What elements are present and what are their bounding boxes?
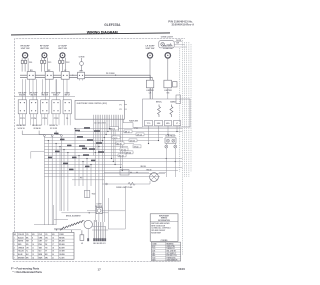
svg-text:OR-BU YL: OR-BU YL xyxy=(49,125,59,127)
svg-text:22 24 26: 22 24 26 xyxy=(34,127,41,130)
svg-text:BLUE: BLUE xyxy=(18,254,22,256)
svg-text:DBL LINE BK: DBL LINE BK xyxy=(166,251,176,253)
svg-text:IND LT: IND LT xyxy=(64,95,71,97)
svg-text:GN 18: GN 18 xyxy=(130,140,135,142)
svg-text:BR 12: BR 12 xyxy=(125,131,130,133)
svg-text:BAKE: BAKE xyxy=(170,101,176,104)
svg-text:0100: 0100 xyxy=(178,267,185,271)
svg-text:WH-BK: WH-BK xyxy=(59,237,65,239)
svg-text:F22: F22 xyxy=(66,62,69,64)
svg-text:UNIT SW: UNIT SW xyxy=(146,48,155,50)
svg-text:BROIL ELEMENT: BROIL ELEMENT xyxy=(66,215,82,217)
svg-text:7: 7 xyxy=(14,257,15,259)
svg-text:HSL: HSL xyxy=(152,253,155,255)
svg-text:316048419 Rev A: 316048419 Rev A xyxy=(172,23,195,27)
svg-text:OR-WH: OR-WH xyxy=(59,254,65,256)
svg-text:DLB RELAY: DLB RELAY xyxy=(165,134,176,137)
svg-text:IND SW: IND SW xyxy=(19,95,26,97)
svg-text:MDL: MDL xyxy=(166,123,170,125)
svg-text:15: 15 xyxy=(52,237,54,239)
svg-text:16: 16 xyxy=(52,241,54,243)
svg-text:1: 1 xyxy=(14,237,15,239)
svg-text:BK-WH GY: BK-WH GY xyxy=(32,125,42,127)
svg-text:WH 36: WH 36 xyxy=(141,166,146,168)
svg-text:YELLW: YELLW xyxy=(18,251,24,253)
svg-text:GY-WH: GY-WH xyxy=(59,251,65,253)
svg-text:12: 12 xyxy=(32,251,34,253)
svg-text:OR 14: OR 14 xyxy=(137,133,142,136)
svg-text:F20: F20 xyxy=(29,62,32,64)
svg-text:ORNGE: ORNGE xyxy=(18,247,24,249)
svg-text:* = Non-Illustrated Parts: * = Non-Illustrated Parts xyxy=(13,270,43,274)
svg-text:3: 3 xyxy=(14,244,15,246)
svg-text:11: 11 xyxy=(32,247,34,249)
svg-text:P8 CONN: P8 CONN xyxy=(106,73,115,75)
svg-text:14 16 18: 14 16 18 xyxy=(18,127,25,130)
svg-text:OVEN CTRL: OVEN CTRL xyxy=(166,246,175,248)
svg-text:RD-WH: RD-WH xyxy=(59,244,65,246)
svg-text:CODE: CODE xyxy=(152,244,156,246)
svg-text:OVEN LIGHT FUSE: OVEN LIGHT FUSE xyxy=(116,187,133,189)
svg-text:P2: P2 xyxy=(120,109,122,111)
svg-text:CODES: CODES xyxy=(161,240,168,242)
svg-text:9: 9 xyxy=(32,241,33,243)
svg-text:WH-BK RD: WH-BK RD xyxy=(16,125,26,127)
svg-text:YL-WH: YL-WH xyxy=(59,257,65,259)
svg-text:ELECTRONIC OVEN CONTROL (EOC): ELECTRONIC OVEN CONTROL (EOC) xyxy=(77,103,108,105)
svg-text:17: 17 xyxy=(52,244,54,246)
svg-text:GY 24: GY 24 xyxy=(121,148,126,151)
svg-text:BU 20: BU 20 xyxy=(117,143,122,145)
svg-text:F21: F21 xyxy=(48,62,51,64)
svg-text:THERM C/O: THERM C/O xyxy=(166,248,175,250)
svg-text:OVEN SENSOR: OVEN SENSOR xyxy=(166,260,178,262)
svg-text:IND LT: IND LT xyxy=(53,95,60,97)
svg-text:UNIT SW: UNIT SW xyxy=(58,48,67,50)
svg-text:BK 10: BK 10 xyxy=(110,128,115,130)
svg-text:THERM DISC: THERM DISC xyxy=(166,257,176,259)
svg-text:VT: VT xyxy=(45,251,47,253)
svg-text:MTR DR LTCH: MTR DR LTCH xyxy=(166,255,176,257)
svg-text:IND SW: IND SW xyxy=(30,95,37,97)
svg-text:RACK SW: RACK SW xyxy=(129,120,138,123)
svg-text:GLEF378A: GLEF378A xyxy=(104,23,121,27)
svg-text:13: 13 xyxy=(32,254,34,256)
svg-text:21: 21 xyxy=(52,257,54,259)
svg-text:INFORMATION: INFORMATION xyxy=(158,219,171,222)
svg-text:OVEN: OVEN xyxy=(79,57,85,59)
svg-text:ROOM TEMP.: ROOM TEMP. xyxy=(151,232,161,234)
svg-text:WH 26: WH 26 xyxy=(126,152,131,154)
svg-text:19: 19 xyxy=(52,251,54,253)
svg-text:BK-WH: BK-WH xyxy=(59,241,65,243)
svg-text:20: 20 xyxy=(52,254,54,256)
svg-text:VT 22: VT 22 xyxy=(134,146,139,148)
svg-text:YL: YL xyxy=(26,251,28,253)
svg-text:BK WH RD GY: BK WH RD GY xyxy=(93,243,106,245)
svg-text:8: 8 xyxy=(32,237,33,239)
svg-text:P1: P1 xyxy=(120,104,122,106)
svg-text:UNIT SW: UNIT SW xyxy=(21,48,30,50)
svg-text:5: 5 xyxy=(14,251,15,253)
svg-text:WITH OVEN DOOR: WITH OVEN DOOR xyxy=(151,225,166,227)
svg-text:RD 38: RD 38 xyxy=(147,169,152,171)
svg-text:6: 6 xyxy=(14,254,15,256)
svg-text:BROIL: BROIL xyxy=(156,102,163,104)
svg-text:RD 28: RD 28 xyxy=(119,155,124,157)
svg-text:TOD: TOD xyxy=(92,193,97,195)
svg-text:IND SW: IND SW xyxy=(42,95,49,97)
svg-text:P9: P9 xyxy=(80,178,82,180)
svg-text:BU-WH: BU-WH xyxy=(59,247,65,249)
svg-text:OVEN LIGHT: OVEN LIGHT xyxy=(161,37,174,39)
svg-text:SEN: SEN xyxy=(152,260,155,262)
svg-text:SW: SW xyxy=(176,43,179,45)
svg-text:L2: L2 xyxy=(81,243,83,245)
svg-text:WHITE: WHITE xyxy=(18,241,23,243)
svg-text:17: 17 xyxy=(98,268,102,272)
svg-text:10: 10 xyxy=(32,244,34,246)
svg-text:P10: P10 xyxy=(135,128,138,130)
svg-text:2: 2 xyxy=(14,241,15,243)
svg-text:HOT SURF LT: HOT SURF LT xyxy=(166,253,176,255)
svg-text:UNIT SW: UNIT SW xyxy=(40,48,49,50)
svg-text:COLOR: COLOR xyxy=(18,234,25,236)
svg-text:YL 16: YL 16 xyxy=(113,137,118,139)
svg-text:18: 18 xyxy=(52,247,54,249)
svg-text:31 33 35: 31 33 35 xyxy=(50,128,57,130)
svg-text:BROWN: BROWN xyxy=(18,257,25,259)
svg-text:MDL: MDL xyxy=(152,255,155,257)
svg-text:CODE: CODE xyxy=(59,234,64,236)
